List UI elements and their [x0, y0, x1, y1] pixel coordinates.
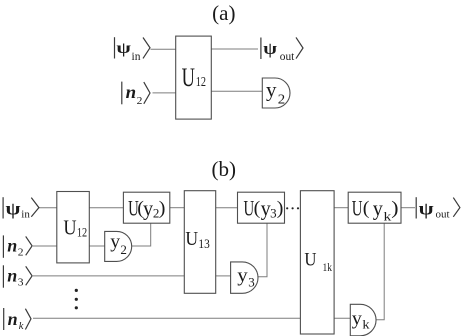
svg-text:in: in	[132, 51, 141, 63]
svg-text:y: y	[373, 196, 383, 221]
svg-text:ψ: ψ	[263, 40, 277, 58]
svg-text:U: U	[185, 228, 198, 250]
svg-text:12: 12	[196, 74, 206, 90]
svg-text:y: y	[266, 80, 277, 101]
svg-text:y: y	[237, 265, 247, 286]
svg-text:1k: 1k	[323, 261, 333, 274]
svg-text:(a): (a)	[212, 1, 235, 25]
svg-text:y: y	[352, 308, 362, 329]
svg-text:n: n	[8, 309, 18, 329]
svg-text:): )	[277, 198, 284, 218]
svg-text:3: 3	[270, 206, 277, 221]
svg-text:U: U	[304, 248, 316, 269]
svg-text:ψ: ψ	[419, 199, 434, 219]
svg-text:3: 3	[248, 274, 255, 289]
svg-text:3: 3	[18, 277, 24, 288]
svg-text:13: 13	[198, 236, 209, 251]
svg-text:(: (	[363, 198, 370, 218]
svg-text:U: U	[63, 216, 76, 239]
svg-text:2: 2	[18, 247, 24, 258]
svg-text:out: out	[280, 50, 295, 63]
svg-text:U: U	[182, 63, 195, 92]
svg-text:in: in	[21, 208, 30, 220]
svg-text:2: 2	[137, 95, 143, 106]
svg-text:ψ: ψ	[116, 39, 131, 57]
svg-text:): )	[391, 198, 398, 218]
svg-text:12: 12	[77, 226, 87, 240]
svg-text:k: k	[362, 317, 369, 331]
svg-text:U: U	[352, 197, 363, 222]
svg-text:y: y	[143, 196, 153, 221]
svg-text:2: 2	[120, 242, 127, 257]
svg-text:n: n	[126, 82, 137, 102]
svg-text:n: n	[7, 236, 17, 256]
svg-text:ψ: ψ	[6, 199, 21, 219]
svg-text:k: k	[19, 321, 24, 332]
svg-text:2: 2	[278, 92, 285, 107]
svg-text:(b): (b)	[212, 157, 237, 181]
svg-text:y: y	[110, 232, 120, 253]
svg-text:): )	[159, 198, 166, 218]
svg-text:out: out	[436, 208, 450, 220]
svg-text:n: n	[7, 265, 17, 285]
svg-text:(: (	[254, 198, 261, 218]
